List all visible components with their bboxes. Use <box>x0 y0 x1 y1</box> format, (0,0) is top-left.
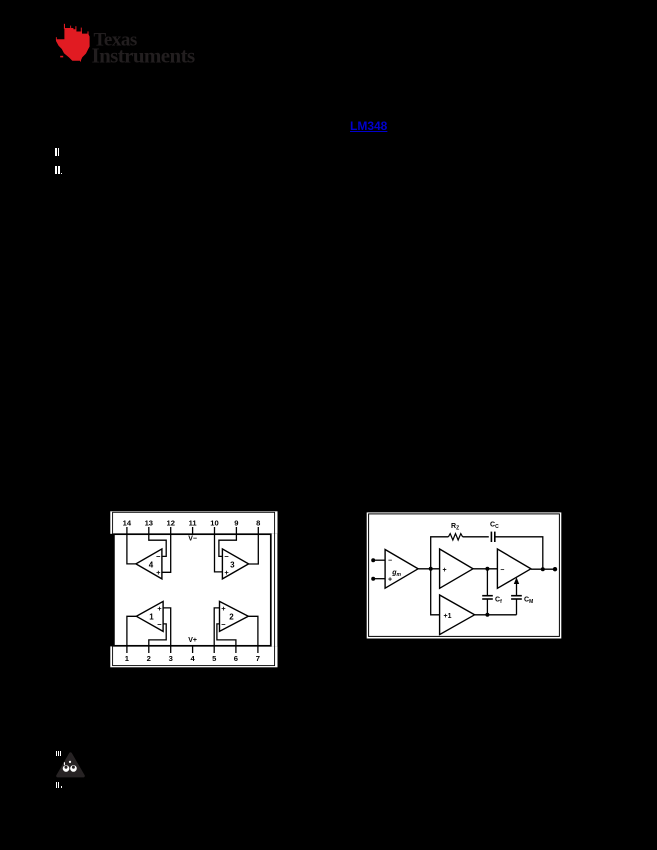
svg-text:−: − <box>221 620 226 629</box>
svg-text:3: 3 <box>230 560 235 569</box>
wire pin9 to U3 inverting input <box>219 527 237 556</box>
wire pin4 V+ stub <box>192 646 194 653</box>
svg-text:11: 11 <box>189 518 198 527</box>
svg-text:+: + <box>388 577 392 584</box>
svg-text:V−: V− <box>188 535 197 542</box>
svg-text:10: 10 <box>210 518 218 527</box>
node A junction dot <box>429 567 433 571</box>
svg-text:14: 14 <box>123 518 132 527</box>
figure background middle band <box>114 534 277 647</box>
svg-text:3: 3 <box>169 654 173 663</box>
wire pin12 to U4 non-inverting input <box>162 527 171 572</box>
RIGHT FIGURE : op-amp internal block diagram <box>365 511 563 640</box>
buffer +1 <box>440 595 475 635</box>
wire CM top toward A3 (arrow shaft) <box>516 582 518 596</box>
node C junction dot on buffer line <box>485 613 489 617</box>
wire pin8 to U3 output <box>249 527 259 564</box>
output terminal dot <box>553 567 557 571</box>
svg-text:1: 1 <box>149 613 154 622</box>
node D junction dot output <box>541 567 545 571</box>
wire pin6 to U2 inverting input <box>217 624 236 653</box>
white footer marker II. <box>56 782 57 788</box>
wire pin13 to U4 inverting input <box>149 527 166 556</box>
wire pin11 V- stub <box>192 527 194 535</box>
svg-text:8: 8 <box>256 518 260 527</box>
svg-text:Instruments: Instruments <box>92 44 196 68</box>
svg-text:+: + <box>224 568 229 577</box>
pin number labels bottom row 1-7 <box>125 654 260 663</box>
op-amp U1 <box>136 601 163 631</box>
LEFT FIGURE : quad op-amp DIP-14 connection diagram <box>108 509 280 670</box>
wire capacitor CF bottom to buffer output line <box>486 599 488 615</box>
svg-text:+: + <box>221 604 226 613</box>
figure background bottom pin strip <box>110 646 277 667</box>
gain stage A2 <box>440 549 473 588</box>
capacitor CM <box>511 596 522 599</box>
red Texas map <box>56 24 90 62</box>
figure background <box>367 512 562 638</box>
figure background top pin strip <box>110 511 277 534</box>
white footer marker III <box>56 751 57 757</box>
TI logo <box>50 18 210 68</box>
wire node A down to buffer input <box>431 569 440 615</box>
svg-text:+: + <box>157 604 162 613</box>
wire node A up to compensation branch <box>431 537 449 569</box>
svg-text:+: + <box>156 568 161 577</box>
input terminal dot non-inverting <box>371 577 375 581</box>
blue hyperlink LM348 <box>350 119 390 133</box>
svg-text:2: 2 <box>147 654 151 663</box>
white list marker II. <box>55 166 57 174</box>
footer warning triangle with scales icon <box>54 750 88 780</box>
svg-text:−: − <box>500 567 504 574</box>
svg-text:9: 9 <box>234 518 238 527</box>
svg-text:+: + <box>443 567 447 574</box>
output stage A3 <box>497 549 531 588</box>
svg-text:−: − <box>156 552 161 561</box>
wire gm output to A2 input, node A <box>418 568 440 570</box>
svg-text:2: 2 <box>229 613 234 622</box>
wire capacitor CC to output column <box>495 537 543 569</box>
wire A3 output to output terminal <box>531 568 555 570</box>
arrowhead into A3 from CM <box>514 577 519 584</box>
wire pin10 to U3 non-inverting input <box>215 527 223 572</box>
wire inverting input to gm <box>373 559 385 561</box>
white list marker II <box>55 148 57 156</box>
node B junction dot <box>485 567 489 571</box>
wire pin1 to U1 output <box>127 616 136 653</box>
transconductance stage gm <box>385 550 418 589</box>
svg-text:V+: V+ <box>188 637 197 644</box>
logo text TEXAS <box>92 30 196 68</box>
wire node B down to capacitor CF <box>486 569 488 596</box>
svg-text:+1: +1 <box>444 613 452 620</box>
wire pin14 to U4 output <box>127 527 136 564</box>
svg-text:−: − <box>388 557 392 564</box>
figure border frame <box>369 514 560 637</box>
DIP package outline <box>114 534 271 646</box>
svg-text:13: 13 <box>145 518 153 527</box>
svg-text:12: 12 <box>166 518 174 527</box>
capacitor CF <box>482 596 493 599</box>
wire A2 output to A3 input, node B <box>473 568 497 570</box>
svg-text:−: − <box>224 552 229 561</box>
input terminal dot inverting <box>371 558 375 562</box>
pin number labels top row 14-8 <box>123 518 261 527</box>
op-amp U3 <box>222 549 248 579</box>
svg-text:−: − <box>157 620 162 629</box>
wire pin2 to U1 inverting input <box>149 624 166 653</box>
wire pin3 to U1 non-inverting input <box>163 608 171 653</box>
svg-text:4: 4 <box>149 560 154 569</box>
wire non-inverting input to gm <box>373 578 385 580</box>
op-amp U4 <box>136 549 162 579</box>
svg-text:6: 6 <box>234 654 238 663</box>
op-amp U2 <box>220 601 249 631</box>
wire resistor RZ to capacitor CC <box>463 536 489 538</box>
wire CM bottom to buffer output line <box>516 599 518 615</box>
figure border frame <box>113 512 275 665</box>
wire pin5 to U2 non-inverting input <box>214 608 219 653</box>
capacitor CC <box>491 532 494 542</box>
wire pin7 to U2 output <box>248 616 258 653</box>
resistor RZ <box>448 534 462 540</box>
svg-text:7: 7 <box>256 654 260 663</box>
wire buffer output line <box>475 614 517 616</box>
